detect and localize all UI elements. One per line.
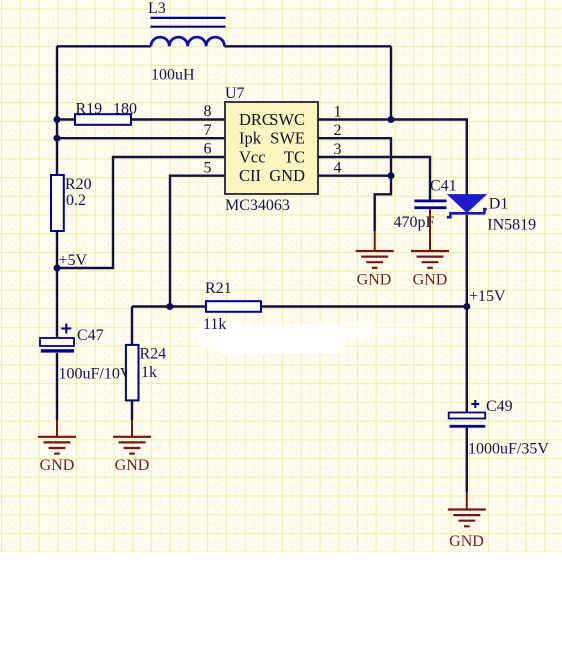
capacitor C47 (polarized): [40, 324, 74, 353]
svg-text:7: 7: [204, 122, 212, 139]
ground symbol (C49): [448, 510, 486, 527]
wire: left vertical rail: [56, 46, 58, 338]
svg-text:L3: L3: [148, 0, 166, 17]
wire: C47 to ground: [56, 353, 58, 420]
junction dot pin5/R21 node: [166, 303, 173, 310]
capacitor C49 (polarized): [449, 400, 486, 428]
svg-text:GND: GND: [357, 271, 392, 288]
svg-text:3: 3: [334, 141, 342, 158]
wire: pin1 to node: [318, 118, 391, 120]
svg-text:470pF: 470pF: [394, 214, 435, 231]
wire: pin4 to vertical: [318, 174, 391, 176]
svg-text:C49: C49: [486, 398, 513, 415]
wire: top horizontal left segment (rail to inductor): [57, 45, 151, 47]
wire: R24 top lead: [131, 307, 133, 345]
junction dot at pin7/rail: [54, 135, 61, 142]
svg-text:Ipk: Ipk: [239, 129, 262, 148]
junction dot at +5V node: [54, 265, 61, 272]
svg-text:+15V: +15V: [469, 288, 506, 305]
svg-text:SWE: SWE: [270, 129, 305, 148]
wire: node to R21 left: [132, 305, 206, 307]
svg-text:GND: GND: [115, 457, 150, 474]
wire: R21 right to +15V node: [261, 305, 467, 307]
wire: pin2 down and jog to ground: [318, 138, 391, 231]
svg-text:IN5819: IN5819: [487, 217, 536, 234]
junction dot pin1 node: [388, 116, 395, 123]
wire: node to diode column: [391, 120, 467, 196]
svg-text:100uF/10V: 100uF/10V: [59, 366, 132, 383]
svg-text:TC: TC: [284, 148, 305, 167]
ground stem left-middle: [374, 231, 376, 251]
wire: top horizontal right segment (inductor to right corner): [224, 45, 391, 47]
svg-text:+5V: +5V: [59, 252, 88, 269]
svg-text:R20: R20: [65, 176, 92, 193]
svg-text:6: 6: [204, 141, 212, 158]
svg-text:8: 8: [204, 103, 212, 120]
ground symbol (pins 2/4): [356, 251, 394, 268]
svg-text:GND: GND: [40, 457, 75, 474]
svg-text:1000uF/35V: 1000uF/35V: [468, 441, 549, 458]
svg-text:SWC: SWC: [269, 110, 305, 129]
svg-text:1k: 1k: [141, 364, 157, 381]
junction dot pin4 node: [388, 172, 395, 179]
svg-text:1: 1: [334, 104, 342, 121]
watermark (erased white patch): [198, 320, 420, 356]
wire: R24 bottom lead: [131, 400, 133, 420]
ground stem (C47): [56, 420, 58, 436]
wire: pin5 down to R21 node: [170, 176, 225, 307]
svg-text:D1: D1: [489, 196, 509, 213]
resistor R24: [126, 345, 139, 401]
svg-text:R21: R21: [205, 280, 232, 297]
svg-text:GND: GND: [269, 166, 305, 185]
wire: pin7 to rail: [57, 137, 225, 139]
junction dot +15V: [463, 303, 470, 310]
svg-text:MC34063: MC34063: [225, 197, 290, 214]
svg-text:100uH: 100uH: [151, 67, 195, 84]
svg-text:5: 5: [204, 159, 212, 176]
svg-text:0.2: 0.2: [66, 192, 86, 209]
IC U7 MC34063 body: [225, 102, 318, 194]
junction dot at R19/rail: [54, 116, 61, 123]
diode D1 (schottky): [447, 195, 487, 218]
svg-text:U7: U7: [225, 85, 245, 102]
svg-text:GND: GND: [413, 271, 448, 288]
wire: C49 to ground: [466, 428, 468, 492]
ground stem (C49): [466, 492, 468, 509]
svg-text:DRC: DRC: [239, 110, 273, 129]
svg-text:11k: 11k: [203, 316, 226, 333]
wire: right vertical from top corner: [390, 46, 392, 119]
ground symbol (R24): [113, 437, 151, 454]
svg-text:R19: R19: [76, 101, 103, 118]
capacitor C41: [415, 200, 447, 210]
ground symbol (C47): [38, 437, 76, 454]
svg-text:4: 4: [334, 160, 342, 177]
ground symbol (C41): [411, 251, 449, 268]
svg-text:C47: C47: [77, 327, 104, 344]
svg-text:Vcc: Vcc: [239, 148, 266, 167]
ground stem (R24): [131, 420, 133, 436]
svg-text:180: 180: [113, 101, 137, 118]
resistor R21: [206, 301, 261, 312]
wire: pin8 left lead to rail: [57, 118, 75, 120]
svg-text:R24: R24: [140, 346, 167, 363]
inductor L3: [151, 18, 226, 46]
svg-text:CII: CII: [239, 166, 261, 185]
svg-text:GND: GND: [449, 533, 484, 550]
resistor R19: [75, 114, 131, 125]
svg-text:2: 2: [334, 122, 342, 139]
wire: C41 bottom lead (power stem): [429, 209, 431, 250]
wire: R19 right lead to pin8: [131, 118, 225, 120]
wire: diode cathode down through +15V to C49: [466, 215, 468, 413]
wire: pin3 to capacitor C41: [318, 157, 430, 200]
resistor R20: [51, 175, 64, 231]
wire: pin6 down to +5V node: [57, 157, 225, 268]
svg-text:C41: C41: [430, 178, 457, 195]
